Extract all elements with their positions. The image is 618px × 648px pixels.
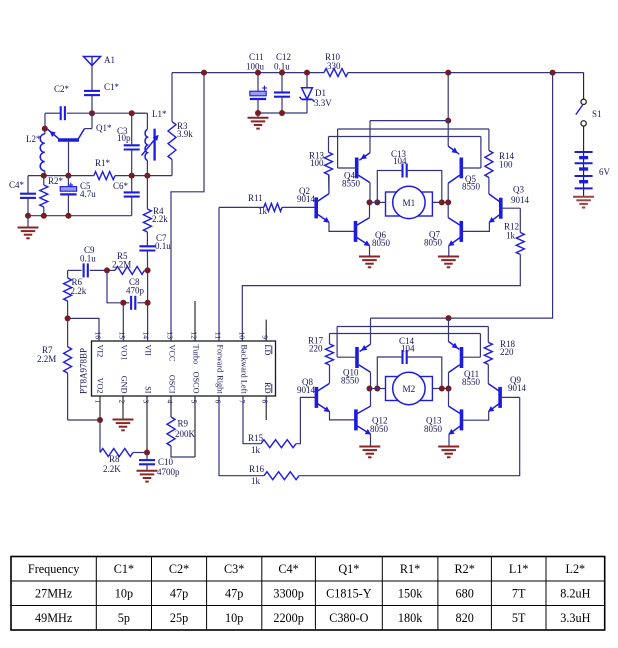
wire tank rail — [67, 112, 148, 114]
svg-text:3.3uH: 3.3uH — [560, 611, 590, 625]
svg-text:L2*: L2* — [566, 562, 586, 576]
node pin1/R8 — [97, 417, 103, 423]
svg-text:C3*: C3* — [224, 562, 244, 576]
node gnd-R2 — [41, 213, 47, 219]
svg-text:Q1*: Q1* — [338, 562, 359, 576]
transistor Q13 — [424, 406, 462, 435]
wire Q8 emitter to Q12 base — [330, 412, 356, 420]
svg-text:L1*: L1* — [152, 109, 167, 119]
svg-text:9014: 9014 — [508, 383, 527, 393]
capacitor C4* — [9, 176, 36, 216]
wire motor1 right — [432, 201, 448, 203]
svg-text:2: 2 — [117, 400, 126, 404]
svg-text:Q1*: Q1* — [96, 123, 112, 133]
svg-text:100: 100 — [310, 158, 324, 168]
wire Q5 base — [461, 137, 481, 169]
svg-text:2.2M: 2.2M — [112, 260, 131, 270]
node motor1 right a — [439, 199, 445, 205]
wire pin4 — [170, 396, 172, 417]
svg-text:PT8A978BP: PT8A978BP — [79, 348, 89, 394]
pin numbers top — [93, 331, 269, 339]
wire node row — [28, 175, 172, 177]
wire VCC drop to pin13 — [171, 73, 204, 341]
svg-text:200K: 200K — [175, 429, 196, 439]
motor M1 — [386, 186, 433, 218]
transistor Q1* — [48, 123, 112, 140]
resistor R9 — [167, 417, 196, 457]
switch S1 — [576, 99, 602, 126]
wire antenna to C1* — [91, 66, 93, 91]
resistor R12 — [504, 208, 524, 254]
svg-text:8050: 8050 — [370, 424, 389, 434]
node motor2 left b — [374, 386, 380, 392]
antenna A1 — [84, 55, 116, 66]
wire Q12 emitter — [370, 434, 372, 446]
svg-text:C4*: C4* — [278, 562, 298, 576]
svg-text:R8: R8 — [109, 454, 120, 464]
svg-text:SI: SI — [144, 386, 153, 394]
svg-text:Forward: Forward — [216, 345, 225, 373]
ground Q12 — [359, 447, 380, 458]
wire Q13 emitter — [448, 434, 450, 446]
node motor1 right b — [445, 199, 451, 205]
wire Q11 collector — [448, 373, 450, 389]
svg-text:330: 330 — [327, 61, 341, 71]
svg-text:27MHz: 27MHz — [35, 587, 73, 601]
wire Q11 base — [462, 334, 481, 358]
wire pin16 — [68, 318, 99, 341]
wire Q9 base to R16 — [299, 397, 520, 475]
resistor R11 — [219, 193, 316, 216]
wire filter ground rail — [258, 112, 307, 114]
capacitor C8 — [123, 277, 147, 310]
svg-text:12: 12 — [189, 331, 198, 339]
svg-text:Frequency: Frequency — [28, 562, 80, 576]
resistor R15 — [243, 396, 316, 455]
node motor2 left a — [367, 386, 373, 392]
capacitor C2* — [54, 84, 70, 120]
node tank/C3 — [129, 110, 135, 116]
transistor Q2 — [297, 186, 330, 223]
svg-text:R9: R9 — [178, 419, 189, 429]
svg-text:R2*: R2* — [454, 562, 474, 576]
diode D1 3.3V zener — [300, 73, 333, 113]
transistor Q12 — [356, 406, 389, 434]
svg-text:47p: 47p — [225, 587, 243, 601]
svg-text:820: 820 — [456, 611, 474, 625]
wire V+ rail left — [172, 72, 324, 74]
svg-text:7: 7 — [237, 400, 246, 404]
svg-text:104: 104 — [401, 344, 415, 354]
svg-text:100: 100 — [499, 160, 513, 170]
transistor Q4 — [342, 153, 370, 189]
svg-text:C380-O: C380-O — [329, 611, 368, 625]
svg-text:GND: GND — [120, 376, 129, 394]
transistor Q7 — [424, 218, 461, 248]
node L1/R4 — [144, 173, 150, 179]
svg-text:14: 14 — [141, 331, 150, 339]
pin names top row — [96, 345, 272, 378]
svg-text:M2: M2 — [403, 384, 416, 394]
wire Q10 base — [337, 327, 357, 358]
svg-text:VCC: VCC — [168, 345, 177, 362]
svg-text:5p: 5p — [118, 611, 130, 625]
wire pin14 — [147, 270, 149, 341]
wire Q1 collector — [85, 114, 93, 129]
svg-text:2.2k: 2.2k — [71, 286, 87, 296]
svg-text:R11: R11 — [248, 193, 263, 203]
svg-text:R2*: R2* — [48, 176, 64, 186]
svg-text:C2*: C2* — [54, 84, 70, 94]
transistor Q10 — [341, 344, 371, 385]
svg-text:16: 16 — [93, 331, 102, 339]
svg-text:C2*: C2* — [169, 562, 189, 576]
node motor2 right a — [439, 386, 445, 392]
svg-text:C10: C10 — [158, 457, 174, 467]
wire bridge2 feed — [371, 73, 553, 319]
node gnd-C4 — [25, 213, 31, 219]
capacitor C12 — [274, 52, 291, 113]
wire pin1 — [99, 396, 101, 420]
svg-text:3: 3 — [141, 400, 150, 404]
svg-text:180k: 180k — [398, 611, 423, 625]
svg-text:LD: LD — [263, 345, 272, 356]
wire Q12 collector — [370, 389, 372, 407]
svg-text:10p: 10p — [225, 611, 243, 625]
pin numbers bottom — [93, 400, 269, 404]
svg-text:8: 8 — [261, 400, 270, 404]
wire Q3 emitter to Q7 base — [461, 222, 489, 231]
wire pin5 — [194, 396, 196, 457]
resistor R5 — [107, 251, 148, 274]
ground Q13 — [438, 447, 459, 458]
node C9/R5 — [104, 267, 110, 273]
node gnd/C12 — [279, 110, 285, 116]
svg-text:Right: Right — [216, 375, 225, 394]
wire cross line C2 — [330, 333, 481, 335]
svg-text:470p: 470p — [126, 286, 145, 296]
node rail/bridge2 — [550, 70, 556, 76]
svg-text:VO1: VO1 — [120, 345, 129, 361]
svg-text:2.2M: 2.2M — [37, 354, 56, 364]
svg-text:D1: D1 — [315, 88, 326, 98]
transistor Q5 — [448, 121, 480, 192]
node motor1 left b — [374, 199, 380, 205]
node C3/C6 — [129, 173, 135, 179]
wire Q5 collector — [447, 183, 449, 202]
svg-text:C4*: C4* — [9, 180, 25, 190]
capacitor C5 — [60, 176, 96, 216]
svg-text:VI2: VI2 — [96, 345, 105, 358]
svg-text:0.1u: 0.1u — [155, 241, 171, 251]
wire Q3 base — [501, 207, 521, 209]
svg-text:Backward: Backward — [240, 345, 249, 378]
svg-text:3.3V: 3.3V — [314, 98, 332, 108]
svg-text:OSCI: OSCI — [168, 375, 177, 394]
svg-text:6: 6 — [213, 400, 222, 404]
svg-text:RD: RD — [263, 382, 272, 393]
svg-text:VO2: VO2 — [96, 378, 105, 394]
ground oscillator — [18, 216, 39, 239]
resistor R3 — [168, 73, 193, 176]
node R6/R7/pin16 — [65, 315, 71, 321]
node tank-rail junction — [89, 110, 95, 116]
svg-text:4700p: 4700p — [157, 467, 180, 477]
wire ground rail — [28, 215, 132, 217]
svg-text:5: 5 — [189, 400, 198, 404]
op-amp U1 PT8A978BP body — [79, 341, 276, 396]
wire Q2 emitter to Q6 base — [329, 222, 356, 231]
wire Q9 emitter to Q13 base — [462, 412, 489, 421]
svg-text:Left: Left — [240, 380, 249, 394]
svg-text:1k: 1k — [251, 445, 261, 455]
transistor Q8 — [297, 377, 330, 412]
node rail/bridge1 — [445, 70, 451, 76]
svg-text:C1*: C1* — [114, 562, 134, 576]
svg-text:15: 15 — [117, 331, 126, 339]
svg-text:3300p: 3300p — [273, 587, 303, 601]
svg-text:8550: 8550 — [462, 182, 481, 192]
ground battery — [573, 197, 594, 208]
svg-text:9: 9 — [261, 335, 270, 339]
resistor R6 — [64, 270, 87, 318]
wire Q1 base lead — [68, 140, 70, 176]
node bridge1 V+ — [445, 118, 451, 124]
wire Q10 collector — [370, 372, 372, 388]
svg-text:8550: 8550 — [462, 377, 481, 387]
capacitor C10 — [139, 453, 180, 478]
wire motor2 left — [370, 388, 386, 390]
capacitor C7 — [139, 233, 171, 270]
svg-text:10: 10 — [237, 331, 246, 339]
resistor R1* — [94, 158, 115, 180]
svg-text:Turbo: Turbo — [192, 345, 201, 365]
svg-text:R16: R16 — [249, 464, 265, 474]
wire V+ rail right — [348, 72, 584, 74]
svg-text:C1*: C1* — [104, 82, 120, 92]
svg-text:9014: 9014 — [511, 195, 530, 205]
svg-text:47p: 47p — [170, 587, 188, 601]
resistor R7 — [37, 318, 100, 420]
svg-text:25p: 25p — [170, 611, 188, 625]
wire C1* to tank rail — [91, 95, 93, 113]
transistor Q11 — [449, 318, 481, 387]
node gnd/C11 — [255, 110, 261, 116]
wire cross line C1 — [329, 136, 481, 138]
svg-text:11: 11 — [213, 332, 222, 340]
svg-text:0.1u: 0.1u — [274, 62, 290, 72]
wire pin3 — [146, 396, 148, 453]
resistor R2* — [40, 176, 64, 216]
wire Q4 base — [338, 129, 357, 168]
capacitor C14 — [377, 336, 442, 389]
svg-text:10p: 10p — [115, 587, 133, 601]
ground C10 — [137, 471, 158, 482]
svg-text:150k: 150k — [398, 587, 423, 601]
svg-text:0.1u: 0.1u — [80, 254, 96, 264]
svg-text:R1*: R1* — [95, 158, 111, 168]
capacitor C9 — [68, 245, 107, 277]
transistor Q3 — [489, 185, 530, 223]
wire pin8 RD stub — [265, 396, 267, 420]
svg-text:9014: 9014 — [297, 194, 316, 204]
svg-text:220: 220 — [500, 347, 514, 357]
svg-text:7T: 7T — [512, 587, 526, 601]
wire C2* left to corner — [45, 113, 61, 128]
wire pin12 Turbo stub — [194, 301, 196, 341]
wire Q9 base — [500, 396, 520, 398]
node motor1 left a — [367, 199, 373, 205]
ground Q6 — [359, 257, 380, 268]
svg-text:S1: S1 — [592, 109, 602, 119]
svg-text:3.9k: 3.9k — [177, 129, 193, 139]
svg-text:1k: 1k — [251, 476, 261, 486]
svg-text:L1*: L1* — [509, 562, 529, 576]
wire Q7 collector — [447, 202, 449, 217]
capacitor C6* — [113, 176, 140, 216]
resistor R14 — [485, 129, 515, 194]
node emitter junction — [42, 126, 48, 132]
svg-text:8550: 8550 — [342, 179, 361, 189]
svg-text:1: 1 — [93, 400, 102, 404]
resistor R17 — [308, 334, 334, 384]
inductor L2* — [26, 129, 45, 176]
svg-text:1k: 1k — [506, 231, 516, 241]
wire Q2 collector to R13 — [328, 175, 330, 194]
wire cross line B1 — [338, 128, 489, 130]
svg-text:C1815-Y: C1815-Y — [326, 587, 372, 601]
wire Q6 emitter — [369, 246, 371, 257]
resistor R13 — [309, 137, 333, 194]
resistor R10 — [324, 52, 348, 77]
svg-text:R1*: R1* — [400, 562, 420, 576]
capacitor C3 — [117, 113, 140, 175]
pin names bottom row — [96, 372, 272, 395]
svg-text:9014: 9014 — [297, 385, 316, 395]
node R5/C7 — [145, 267, 151, 273]
wire switch to battery — [583, 126, 585, 151]
svg-text:6V: 6V — [599, 167, 611, 177]
svg-text:A1: A1 — [104, 55, 115, 65]
node L2/R2 — [41, 173, 47, 179]
svg-text:OSCO: OSCO — [192, 372, 201, 394]
ground Q7 — [438, 257, 459, 268]
node C8 right — [145, 300, 151, 306]
wire pin11 Forward — [218, 207, 220, 341]
resistor R8 — [100, 420, 147, 474]
svg-text:8050: 8050 — [424, 238, 443, 248]
wire bridge1 emitter line — [370, 120, 448, 122]
resistor R4 — [143, 176, 168, 247]
node bridge2 V+ — [446, 315, 452, 321]
wire motor2 right — [432, 388, 448, 390]
svg-text:8050: 8050 — [372, 238, 391, 248]
svg-text:2200p: 2200p — [273, 611, 303, 625]
wire Q7 emitter — [448, 246, 450, 257]
svg-text:100u: 100u — [246, 62, 265, 72]
wire bridge1 power drop — [447, 73, 449, 121]
node base/C5 — [65, 173, 71, 179]
node gnd-C5 — [65, 213, 71, 219]
wire pin2 GND stub — [122, 396, 124, 420]
svg-text:5T: 5T — [512, 611, 526, 625]
capacitor C13 — [377, 149, 442, 202]
svg-text:220: 220 — [309, 344, 323, 354]
svg-text:2.2k: 2.2k — [152, 214, 168, 224]
node C8 left — [120, 300, 126, 306]
svg-text:680: 680 — [456, 587, 474, 601]
svg-text:C6*: C6* — [113, 181, 129, 191]
svg-text:R15: R15 — [248, 433, 264, 443]
svg-text:10p: 10p — [117, 133, 131, 143]
svg-text:VII: VII — [144, 345, 153, 357]
wire motor1 left — [370, 201, 386, 203]
ground filter — [248, 113, 269, 129]
svg-text:104: 104 — [393, 156, 407, 166]
svg-text:C11: C11 — [249, 52, 264, 62]
wire Q4 emitter drop — [369, 121, 371, 153]
svg-text:8050: 8050 — [424, 424, 443, 434]
battery 6V — [575, 151, 611, 197]
wire Q6 collector — [369, 202, 371, 217]
svg-text:1k: 1k — [258, 206, 268, 216]
svg-text:Q3: Q3 — [513, 185, 524, 195]
transistor Q9 — [488, 375, 527, 412]
svg-text:4: 4 — [165, 400, 174, 404]
wire cross line B2 — [337, 326, 488, 328]
resistor R18 — [484, 327, 515, 384]
inductor L1* — [142, 109, 167, 176]
node rail/D1 — [304, 70, 310, 76]
node rail/C12 — [279, 70, 285, 76]
wire Q10 emitter drop — [370, 318, 372, 344]
resistor R16 — [219, 396, 299, 486]
wire pin9 LD stub — [265, 320, 267, 341]
svg-text:4.7u: 4.7u — [80, 189, 96, 199]
capacitor C1* — [84, 82, 120, 95]
wire pin15 — [122, 303, 124, 341]
motor M2 — [386, 372, 433, 404]
transistor Q6 — [356, 218, 391, 248]
node R8/pin3/C10 — [144, 450, 150, 456]
svg-text:C12: C12 — [276, 52, 291, 62]
svg-text:13: 13 — [165, 331, 174, 339]
svg-text:49MHz: 49MHz — [35, 611, 73, 625]
svg-text:L2*: L2* — [26, 134, 41, 144]
svg-text:8.2uH: 8.2uH — [560, 587, 590, 601]
wire VO1 tap — [107, 270, 123, 302]
svg-text:M1: M1 — [403, 198, 416, 208]
table component values — [11, 557, 605, 631]
wire rail to switch — [583, 73, 585, 99]
wire Q13 collector — [448, 389, 450, 407]
wire R12 to pin10 Backward — [242, 254, 520, 341]
svg-text:2.2K: 2.2K — [103, 464, 121, 474]
node rail/VCC — [201, 70, 207, 76]
ground pin2 — [113, 420, 134, 431]
node rail/C11 — [255, 70, 261, 76]
wire Q4 collector — [369, 183, 371, 203]
capacitor C11 — [246, 52, 267, 113]
node motor2 right b — [446, 386, 452, 392]
svg-text:8550: 8550 — [341, 376, 360, 386]
